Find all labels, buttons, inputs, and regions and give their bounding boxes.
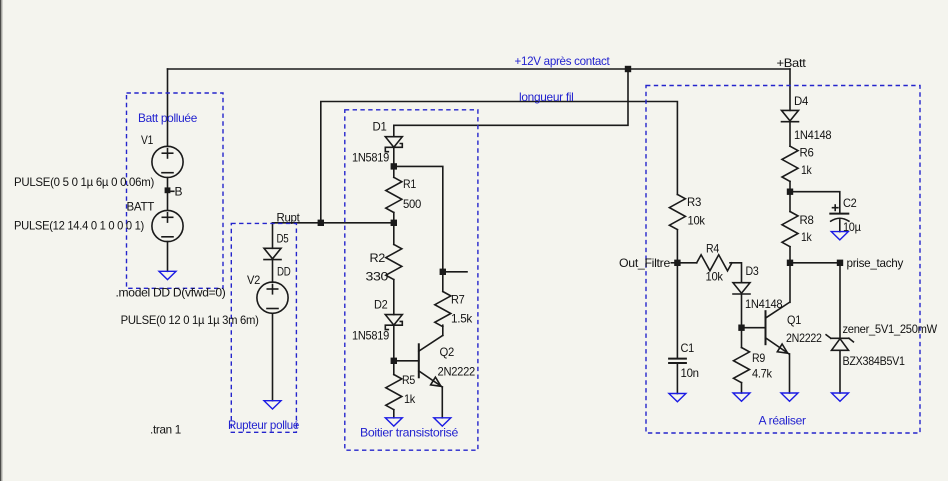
voltage source BATT xyxy=(152,210,183,241)
node R6-R8 junction xyxy=(787,189,793,195)
wire C1 drop xyxy=(676,263,678,358)
svg-text:R1: R1 xyxy=(403,177,417,191)
wire V2 to ground xyxy=(272,313,274,400)
wire C2 to ground xyxy=(839,220,841,232)
wire R7 branch from node xyxy=(394,166,443,291)
wire Q2 base lead xyxy=(394,360,419,362)
wire D3 to R9 node xyxy=(741,294,743,347)
node D2-R5 junction xyxy=(391,358,397,364)
svg-text:Q1: Q1 xyxy=(787,313,802,327)
svg-text:PULSE(0 5 0 1µ 6µ 0 0.06m): PULSE(0 5 0 1µ 6µ 0 0.06m) xyxy=(14,175,154,189)
svg-text:V2: V2 xyxy=(247,273,261,287)
wire R6 to R8 xyxy=(789,181,791,211)
voltage source V2 xyxy=(257,282,288,313)
resistor R4 xyxy=(697,255,732,271)
svg-text:R9: R9 xyxy=(752,351,766,365)
wire D1 to +12V rail xyxy=(394,69,628,137)
wire Out_Filtre label tick xyxy=(671,262,674,264)
svg-text:D3: D3 xyxy=(746,264,760,278)
ground R5 xyxy=(385,418,402,426)
node Out_Filtre junction xyxy=(674,260,680,266)
svg-text:1k: 1k xyxy=(404,392,416,406)
wire Rupt to D5 xyxy=(272,223,274,249)
transistor Q1 2N2222 xyxy=(766,302,790,354)
wire R3 to Out row xyxy=(676,230,678,263)
svg-text:1N4148: 1N4148 xyxy=(745,297,783,311)
resistor R9 xyxy=(734,348,750,383)
wire stub right of R7 xyxy=(443,271,467,273)
resistor R2 xyxy=(386,244,402,279)
svg-text:A réaliser: A réaliser xyxy=(759,414,806,428)
wire R5 to ground xyxy=(393,410,395,418)
svg-text:330: 330 xyxy=(366,269,389,283)
svg-text:1k: 1k xyxy=(801,163,813,177)
svg-text:+Batt: +Batt xyxy=(777,56,807,70)
wire C1 to ground xyxy=(676,364,678,394)
svg-text:1N5819: 1N5819 xyxy=(352,329,390,343)
window left border xyxy=(0,0,3,481)
wire V1 top stem xyxy=(167,69,169,146)
wire zener to ground xyxy=(839,350,841,393)
ground R9 xyxy=(733,393,750,401)
node D1-R1 junction xyxy=(391,163,397,169)
node prise_tachy junction xyxy=(837,260,843,266)
box Rupteur pollué xyxy=(231,223,296,432)
svg-text:B: B xyxy=(175,185,183,199)
resistor R1 xyxy=(386,177,402,212)
svg-text:PULSE(12 14.4 0 1 0 0 0 1): PULSE(12 14.4 0 1 0 0 0 1) xyxy=(14,218,144,232)
wire Q2 emitter to ground xyxy=(441,387,443,418)
svg-text:10k: 10k xyxy=(688,214,706,228)
zener diode BZX384B5V1 xyxy=(826,335,853,351)
voltage source V1 xyxy=(152,146,183,177)
node D3-R9 junction xyxy=(738,325,744,331)
node Rupt junction xyxy=(318,220,324,226)
svg-text:D5: D5 xyxy=(277,232,290,246)
svg-text:prise_tachy: prise_tachy xyxy=(847,256,904,270)
svg-text:Q2: Q2 xyxy=(440,345,455,359)
svg-text:1N5819: 1N5819 xyxy=(352,151,390,165)
svg-text:1N4148: 1N4148 xyxy=(794,128,832,142)
wire BATT to ground xyxy=(167,242,169,272)
svg-text:1k: 1k xyxy=(801,230,813,244)
svg-text:2N2222: 2N2222 xyxy=(438,364,476,378)
node B junction xyxy=(165,187,171,193)
svg-text:D1: D1 xyxy=(373,120,388,134)
svg-text:BZX384B5V1: BZX384B5V1 xyxy=(843,354,906,368)
grounds xyxy=(159,232,849,427)
svg-text:10n: 10n xyxy=(681,366,699,380)
svg-text:4.7k: 4.7k xyxy=(752,366,773,380)
wire +Batt to D4 xyxy=(789,69,791,110)
wire R9 to ground xyxy=(741,383,743,393)
svg-text:10k: 10k xyxy=(706,270,724,284)
wire R8 to prise row xyxy=(789,247,791,263)
wire Q1 collector riser xyxy=(789,263,791,303)
ground BATT xyxy=(159,271,176,279)
diode D1 1N5819 schottky xyxy=(385,137,402,152)
resistor R7 xyxy=(435,292,451,327)
wire V1 to BATT through node B xyxy=(167,178,169,211)
node prise row left junction xyxy=(787,260,793,266)
resistor R3 xyxy=(669,194,685,229)
svg-text:DD: DD xyxy=(277,265,291,279)
capacitor C2 polarized xyxy=(830,205,849,221)
diode D4 1N4148 xyxy=(782,110,799,121)
svg-text:1.5k: 1.5k xyxy=(451,311,473,325)
svg-text:BATT: BATT xyxy=(127,200,155,214)
wire R7 to Q2 collector xyxy=(442,325,444,335)
svg-text:R2: R2 xyxy=(370,251,386,265)
svg-text:10µ: 10µ xyxy=(843,220,861,234)
svg-text:Rupteur pollué: Rupteur pollué xyxy=(228,418,300,432)
wire R4 to D3 xyxy=(730,263,742,283)
svg-text:Batt polluée: Batt polluée xyxy=(138,111,198,125)
svg-text:R5: R5 xyxy=(402,373,416,387)
svg-text:zener_5V1_250mW: zener_5V1_250mW xyxy=(843,322,938,336)
svg-text:+12V après contact: +12V après contact xyxy=(515,54,611,68)
wire D1 to R1 xyxy=(393,147,395,177)
svg-text:D2: D2 xyxy=(374,297,388,311)
wire D2 to R5 xyxy=(393,326,395,375)
box Boitier transistorisé xyxy=(345,110,478,450)
resistor R6 xyxy=(782,146,798,181)
resistor R5 xyxy=(386,375,402,410)
wire to C2 xyxy=(790,192,840,213)
diode D2 1N5819 schottky xyxy=(385,315,402,330)
wire +12V top rail xyxy=(168,68,791,70)
wire D4 to R6 xyxy=(789,122,791,147)
wire longueur fil xyxy=(321,102,678,223)
wire Q1 emitter to ground xyxy=(789,354,791,393)
svg-text:2N2222: 2N2222 xyxy=(786,331,822,345)
box Batt polluée xyxy=(127,93,224,288)
wire D5 to V2 xyxy=(272,260,274,282)
transistor Q2 2N2222 xyxy=(419,335,443,387)
ground zener xyxy=(832,393,849,401)
wire prise_tachy row xyxy=(790,262,840,264)
svg-text:R8: R8 xyxy=(800,213,815,227)
node R1-R2 junction xyxy=(391,220,397,226)
ground V2 xyxy=(264,401,281,409)
svg-text:Rupt: Rupt xyxy=(277,210,301,224)
wire Out row to R4 xyxy=(677,262,696,264)
svg-text:R3: R3 xyxy=(687,195,702,209)
ground Q2 xyxy=(434,418,451,426)
wire zener drop xyxy=(839,263,841,339)
svg-text:Boitier transistorisé: Boitier transistorisé xyxy=(360,426,459,440)
svg-text:500: 500 xyxy=(403,197,422,211)
svg-text:C1: C1 xyxy=(681,341,695,355)
svg-text:R7: R7 xyxy=(451,293,465,307)
svg-text:Out_Filtre: Out_Filtre xyxy=(619,256,671,270)
dashed boxes xyxy=(127,86,921,451)
diode D5 xyxy=(264,248,281,259)
svg-text:V1: V1 xyxy=(141,133,154,147)
ground Q1 xyxy=(781,393,798,401)
ground C1 xyxy=(669,394,686,402)
node B tick xyxy=(171,190,174,192)
svg-text:.model DD D(vfwd=0): .model DD D(vfwd=0) xyxy=(116,286,226,300)
node +12V junction xyxy=(625,66,631,72)
wire R2 to D2 xyxy=(393,280,395,315)
resistor R8 xyxy=(782,212,798,247)
svg-text:R6: R6 xyxy=(800,146,815,160)
svg-text:C2: C2 xyxy=(843,196,857,210)
svg-text:.tran 1: .tran 1 xyxy=(150,422,182,436)
svg-text:R4: R4 xyxy=(706,242,720,256)
wire Q1 base lead xyxy=(742,327,766,329)
svg-text:PULSE(0 12 0 1µ 1µ 3m 6m): PULSE(0 12 0 1µ 1µ 3m 6m) xyxy=(121,313,259,327)
node R7 stub junction xyxy=(440,269,446,275)
wire R1 to R2 xyxy=(393,213,395,245)
diode D3 1N4148 xyxy=(733,283,750,294)
svg-text:D4: D4 xyxy=(794,94,809,108)
wire Rupt row xyxy=(273,222,394,224)
ground C2 xyxy=(831,232,848,240)
box A réaliser xyxy=(646,86,920,434)
capacitor C1 xyxy=(669,359,686,363)
svg-text:longueur fil: longueur fil xyxy=(519,90,574,104)
